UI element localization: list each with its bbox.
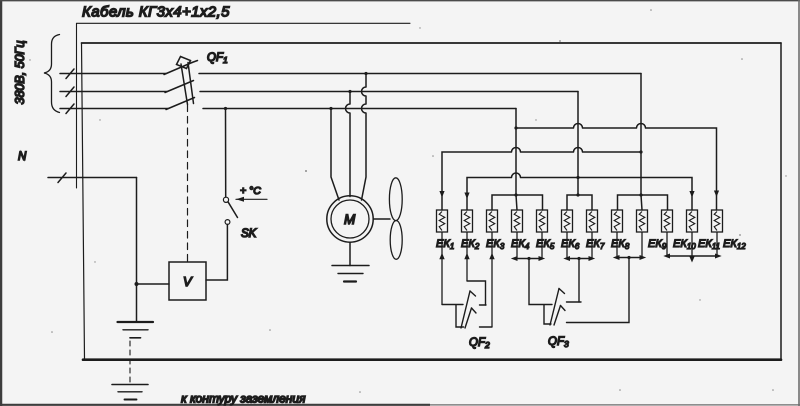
junction bus B to L1 drop [639, 150, 642, 153]
wire to SK [225, 109, 227, 198]
wire N to V [137, 283, 170, 285]
resistor EK4 [511, 210, 530, 259]
cable core tick L2 [66, 87, 74, 97]
label +°C with arrow [236, 185, 267, 202]
switch QF2 [461, 291, 492, 328]
junction L3 drop [514, 126, 517, 129]
bracket L1 feeds EK8,EK9,EK10 [618, 195, 668, 210]
ground (external earth loop) [112, 385, 148, 400]
phase line L1 (incoming) [60, 73, 166, 75]
resistor EK6 [561, 210, 580, 259]
junction bus C with L2 drop [576, 176, 579, 179]
resistor EK5 [536, 210, 555, 259]
wire motor to ground [349, 242, 351, 265]
svg-text:V: V [183, 274, 193, 289]
cable core tick L3 [66, 104, 74, 114]
wire N drop [136, 178, 138, 322]
wire star {EK6,EK7} to QF3 [578, 259, 580, 303]
wire EK8-EK9 star bus [616, 257, 643, 259]
svg-text:380В, 50Гц: 380В, 50Гц [13, 41, 27, 105]
fan shaft [373, 218, 390, 220]
brace [44, 35, 60, 113]
wire L2 drop [577, 92, 579, 196]
resistor EK9 [637, 210, 667, 258]
svg-text:N: N [18, 151, 27, 163]
resistor EK8 [611, 210, 630, 258]
bus C y177.5 (L2 feed EK2..EK11) [467, 173, 692, 210]
wire SK to V [206, 225, 227, 281]
wire EK4-EK5 star bus [515, 258, 543, 260]
resistor EK7 [586, 210, 605, 259]
svg-text:SK: SK [241, 228, 258, 240]
wire motor B with hop over L3 [346, 92, 351, 197]
svg-text:+ °С: + °С [240, 185, 261, 197]
cable core tick N [58, 173, 66, 183]
switch QF3 [550, 289, 581, 326]
bus A y128 (L3 feed to EK12) [516, 124, 717, 211]
phase line L3 (incoming) [60, 108, 168, 110]
wire EK1 bottom to QF2 [442, 305, 464, 328]
wire star {EK4,EK5} to QF3 [529, 259, 552, 325]
wire EK2 bottom to QF2 [467, 281, 486, 305]
motor M [327, 196, 373, 242]
wire EK10-EK11-EK12 star bus [667, 255, 719, 257]
junction N to V [135, 282, 139, 286]
junction motor tap B on L2 [348, 90, 351, 93]
ground (N earth) [118, 322, 154, 338]
svg-text:к контуру заземления: к контуру заземления [181, 392, 306, 406]
wire L3 (after QF1) [203, 108, 516, 110]
junction SK tap on L3 [224, 107, 227, 110]
phase line L2 (incoming) [60, 91, 167, 93]
wire L3 drop to bracket [515, 109, 517, 196]
resistor EK11 [687, 210, 721, 256]
cable core tick L1 [66, 69, 74, 79]
junction motor tap C on L1 [364, 72, 367, 75]
bus B y152 (L1 feed to EK1) [442, 148, 641, 211]
enclosure box [82, 43, 782, 360]
ground (motor) [332, 266, 369, 282]
wire N (incoming) [48, 177, 137, 179]
wire motor A [331, 109, 339, 201]
resistor EK2 [461, 210, 480, 281]
wire EK6-EK7 star bus [567, 258, 593, 260]
junction motor tap A on L3 [329, 107, 332, 110]
voltmeter V [169, 262, 206, 300]
bracket L3 feeds EK3,EK4,EK5 [492, 195, 543, 210]
dashed earth wire through enclosure [129, 341, 131, 383]
wire motor C with hops over L2,L3 [362, 74, 367, 201]
dashed trip link QF1 to V [187, 105, 189, 262]
resistor EK1 [436, 210, 454, 305]
fan blades [389, 178, 402, 259]
breaker QF1 [164, 57, 198, 110]
cable designation label [77, 4, 411, 189]
switch SK [223, 197, 237, 224]
svg-text:М: М [344, 212, 356, 227]
svg-text:Кабель КГ3х4+1х2,5: Кабель КГ3х4+1х2,5 [82, 4, 230, 21]
wire L1 drop [640, 74, 642, 196]
resistor EK10 [662, 210, 697, 256]
connector arrows (top) EK1,EK2,EK11,EK12 [439, 191, 719, 200]
bracket L2 feeds EK6,EK7 [567, 195, 592, 210]
resistor EK12 [712, 210, 747, 256]
wire star {EK8,EK9} to QF3 [567, 258, 630, 323]
wire L2 (after QF1) [200, 91, 578, 93]
wire L1 (after QF1) [199, 73, 641, 75]
resistor EK3 [486, 210, 505, 327]
